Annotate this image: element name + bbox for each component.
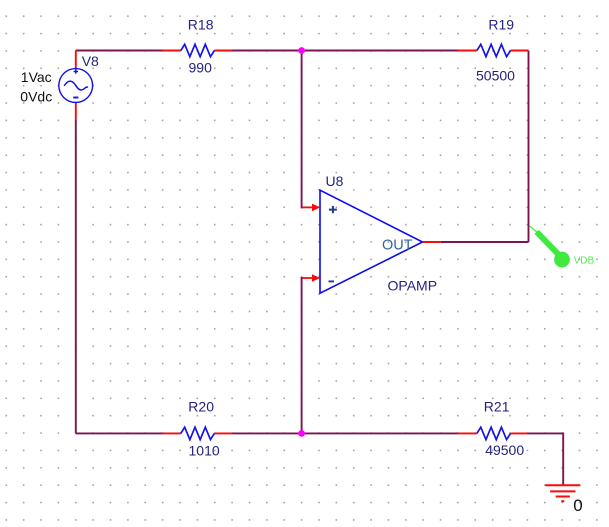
svg-text:VDB: VDB — [574, 255, 595, 266]
value label 0Vdc — [20, 89, 52, 105]
value label 1Vac — [21, 69, 52, 85]
ground 0 — [545, 485, 580, 501]
resistor R19 — [458, 44, 529, 56]
junction node top — [298, 47, 305, 54]
value label 50500 — [476, 68, 515, 84]
wire bottom right: R21 to ground — [527, 433, 563, 485]
svg-text:1Vac: 1Vac — [21, 69, 52, 85]
reference label R18 — [188, 16, 214, 32]
svg-text:OPAMP: OPAMP — [388, 277, 438, 293]
svg-text:990: 990 — [189, 60, 213, 76]
junction node bottom — [298, 430, 305, 437]
value label 990 — [189, 60, 213, 76]
pin + input — [302, 204, 320, 212]
op-amp U8 — [320, 190, 423, 293]
svg-text:1010: 1010 — [189, 442, 220, 458]
ground label 0 — [573, 496, 582, 515]
wire bottom rail middle: R20 to R21 through node — [232, 432, 458, 434]
svg-text:R18: R18 — [188, 16, 214, 32]
probe VDB — [529, 225, 570, 267]
pin OUT — [423, 241, 441, 243]
reference label V8 — [82, 53, 99, 69]
svg-text:R19: R19 — [488, 16, 514, 32]
wire top rail middle: R18 to R19 through node — [232, 50, 458, 52]
pin name OUT — [382, 237, 413, 253]
wire left vertical: V8 bottom to bottom rail — [75, 120, 77, 434]
wire output horizontal: op-amp out to right vertical — [441, 241, 529, 243]
resistor R21 — [458, 427, 528, 439]
svg-text:R21: R21 — [484, 399, 510, 415]
value label 1010 — [189, 442, 220, 458]
reference label U8 — [326, 173, 344, 189]
wire mid vertical upper: top node to op-amp + input — [302, 51, 304, 208]
reference label R21 — [484, 399, 510, 415]
wire top rail left: V8 top to R18 — [76, 50, 163, 52]
reference label R20 — [188, 399, 214, 415]
value label OPAMP — [388, 277, 438, 293]
reference label R19 — [488, 16, 514, 32]
wire right vertical: R19 down to output corner — [528, 51, 530, 243]
svg-text:V8: V8 — [82, 53, 99, 69]
voltage source V8 — [59, 51, 93, 120]
svg-text:0: 0 — [573, 496, 582, 515]
probe label VDB — [574, 255, 595, 266]
svg-text:0Vdc: 0Vdc — [20, 89, 52, 105]
pin - input — [302, 274, 320, 282]
svg-text:U8: U8 — [326, 173, 344, 189]
svg-text:49500: 49500 — [485, 442, 524, 458]
svg-text:OUT: OUT — [382, 237, 413, 253]
wire bottom rail left: to R20 — [76, 432, 163, 434]
svg-text:50500: 50500 — [476, 68, 515, 84]
value label 49500 — [485, 442, 524, 458]
svg-text:R20: R20 — [188, 399, 214, 415]
resistor R20 — [163, 427, 233, 439]
resistor R18 — [163, 44, 233, 56]
wire mid vertical lower: op-amp - input to bottom node — [302, 278, 304, 433]
